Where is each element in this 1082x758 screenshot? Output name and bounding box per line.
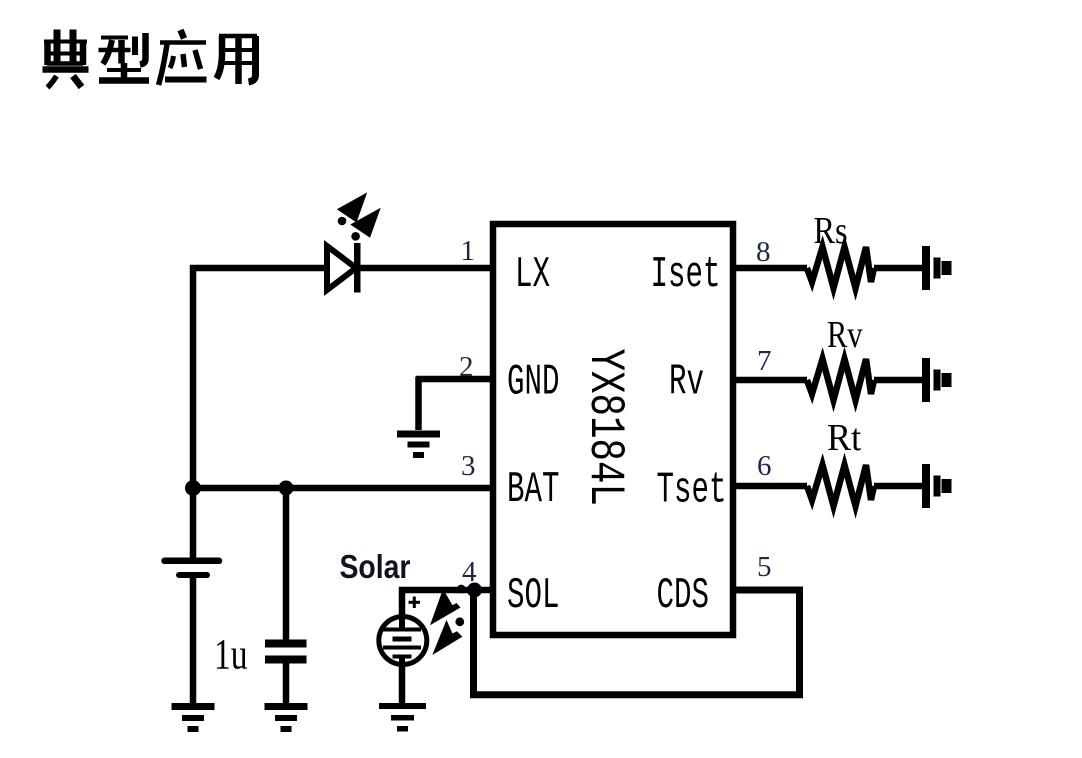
svg-text:3: 3	[461, 450, 476, 482]
svg-text:2: 2	[459, 351, 474, 383]
svg-text:CDS: CDS	[657, 572, 709, 621]
svg-text:Rv: Rv	[827, 314, 863, 356]
svg-text:Rv: Rv	[669, 358, 704, 407]
svg-text:4: 4	[462, 556, 477, 588]
svg-text:LX: LX	[515, 251, 550, 300]
svg-text:5: 5	[757, 551, 772, 583]
svg-text:Rt: Rt	[827, 417, 862, 459]
svg-text:YX8184L: YX8184L	[576, 349, 632, 507]
svg-text:Solar: Solar	[340, 548, 411, 586]
svg-text:Iset: Iset	[651, 251, 721, 300]
svg-text:Rs: Rs	[814, 210, 848, 252]
svg-text:BAT: BAT	[507, 466, 559, 515]
svg-text:SOL: SOL	[507, 572, 559, 621]
svg-text:1u: 1u	[214, 632, 248, 679]
svg-text:6: 6	[757, 450, 772, 482]
svg-text:GND: GND	[507, 358, 559, 407]
svg-text:Tset: Tset	[657, 466, 727, 515]
svg-text:8: 8	[756, 236, 771, 268]
svg-text:1: 1	[461, 235, 476, 267]
svg-text:7: 7	[757, 345, 772, 377]
